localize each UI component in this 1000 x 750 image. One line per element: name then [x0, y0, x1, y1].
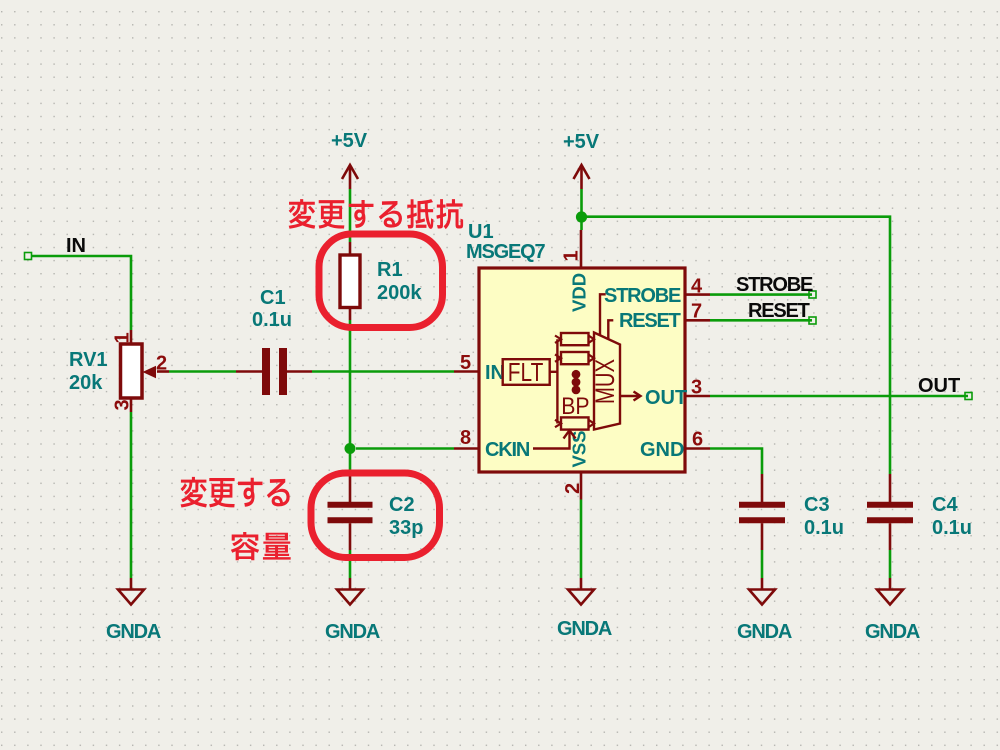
wire IN to RV1 pin 1 — [31, 256, 131, 330]
svg-text:0.1u: 0.1u — [804, 517, 844, 539]
U1 pin 4 STROBE stub — [685, 293, 710, 296]
U1 pin 5 IN stub — [454, 370, 479, 373]
svg-text:4: 4 — [691, 276, 703, 298]
svg-text:0.1u: 0.1u — [252, 309, 292, 331]
svg-text:8: 8 — [460, 427, 471, 449]
capacitor C4 — [867, 474, 913, 550]
svg-text:GNDA: GNDA — [865, 621, 920, 643]
wire +5V to R1 — [349, 189, 352, 242]
svg-text:+5V: +5V — [563, 131, 600, 153]
U1 pin 2 VSS stub — [580, 472, 583, 500]
svg-text:2: 2 — [562, 483, 584, 494]
svg-text:6: 6 — [692, 429, 703, 451]
annotation text 変更する抵抗 — [289, 199, 316, 229]
unconnected end square (OUT) — [965, 393, 972, 400]
svg-text:STROBE: STROBE — [604, 285, 681, 307]
svg-text:200k: 200k — [377, 282, 422, 304]
U1 pin 1 VDD stub — [580, 230, 583, 268]
U1 pin 8 CKIN stub — [454, 447, 479, 450]
annotation circle (R1) — [319, 234, 443, 328]
svg-text:33p: 33p — [389, 517, 423, 539]
U1 internal FLT to bus line — [550, 371, 558, 373]
capacitor C3 — [739, 474, 785, 550]
U1 internal filter box 3 BP — [561, 417, 589, 429]
U1 pin 6 GND stub — [685, 447, 710, 450]
svg-text:C1: C1 — [260, 287, 286, 309]
svg-text:OUT: OUT — [645, 387, 687, 409]
wire +5V rail to C4 — [580, 189, 583, 230]
svg-text:OUT: OUT — [918, 375, 960, 397]
junction at CKIN node — [345, 443, 356, 454]
svg-text:3: 3 — [691, 377, 702, 399]
ground GNDA (C3) — [749, 578, 775, 605]
svg-text:+5V: +5V — [331, 130, 368, 152]
svg-text:IN: IN — [66, 235, 86, 257]
wire RV1 pin 3 to ground — [130, 412, 133, 578]
svg-text:MUX: MUX — [590, 359, 620, 404]
svg-text:20k: 20k — [69, 372, 103, 394]
unconnected end square (IN) — [25, 253, 32, 260]
svg-text:2: 2 — [156, 353, 167, 375]
svg-text:MSGEQ7: MSGEQ7 — [466, 241, 545, 263]
capacitor C1 — [236, 348, 312, 395]
wire junction to U1 pin 8 — [356, 447, 454, 450]
wire U1 pin 3 OUT — [710, 395, 968, 398]
unconnected end square (RESET) — [809, 317, 816, 324]
annotation text 容量 — [231, 532, 259, 560]
svg-text:R1: R1 — [377, 259, 403, 281]
svg-text:GNDA: GNDA — [325, 621, 380, 643]
power symbol +5V (U1) — [574, 165, 590, 189]
svg-text:C3: C3 — [804, 494, 830, 516]
U1 internal MUX trapezoid — [594, 333, 620, 430]
ground GNDA (C4) — [877, 578, 903, 605]
IC U1 MSGEQ7 body — [479, 268, 685, 472]
wire C4 to ground — [889, 550, 892, 578]
svg-text:U1: U1 — [468, 221, 494, 243]
svg-text:0.1u: 0.1u — [932, 517, 972, 539]
wire U1 pin 7 RESET — [710, 319, 812, 322]
unconnected end square (STROBE) — [809, 291, 816, 298]
U1 internal mux arrows — [589, 336, 595, 428]
ground GNDA (U1) — [568, 578, 594, 605]
U1 internal dots — [572, 370, 581, 394]
wire U1 pin 6 GND to C3 — [710, 449, 762, 475]
U1 internal filter box 1 — [561, 333, 589, 345]
potentiometer RV1 body — [121, 330, 170, 412]
U1 internal filter bus — [556, 339, 558, 423]
U1 internal input arrows — [555, 336, 561, 428]
power symbol +5V (R1) — [342, 165, 358, 189]
svg-text:5: 5 — [460, 352, 471, 374]
ground GNDA (RV1) — [118, 578, 144, 605]
svg-text:GNDA: GNDA — [106, 621, 161, 643]
wire U1 pin 2 to ground — [580, 500, 583, 579]
svg-text:1: 1 — [112, 332, 134, 343]
junction at VDD node — [576, 211, 587, 222]
ground GNDA (C2) — [337, 578, 363, 605]
U1 internal STROBE hook — [600, 294, 606, 335]
svg-text:VSS: VSS — [569, 430, 590, 467]
svg-text:C4: C4 — [932, 494, 958, 516]
wire C3 to ground — [761, 550, 764, 578]
svg-text:RESET: RESET — [619, 310, 681, 332]
svg-text:GND: GND — [640, 439, 684, 461]
resistor R1 — [340, 242, 360, 320]
annotation circle (C2) — [311, 473, 440, 558]
svg-text:CKIN: CKIN — [485, 439, 530, 461]
wire R1 to junction and C2 — [349, 320, 352, 472]
U1 pin 7 RESET stub — [685, 319, 710, 322]
U1 internal RESET hook — [608, 320, 613, 339]
svg-text:GNDA: GNDA — [737, 621, 792, 643]
U1 internal FLT box — [503, 359, 550, 385]
wire +5V rail horizontal — [582, 217, 891, 474]
wire C1 to U1 pin 5 — [312, 370, 454, 373]
svg-text:C2: C2 — [389, 494, 415, 516]
svg-text:3: 3 — [112, 399, 134, 410]
capacitor C2 — [328, 472, 373, 550]
svg-text:RESET: RESET — [748, 300, 810, 322]
U1 internal OUT arrow — [620, 392, 641, 401]
wire U1 pin 4 STROBE — [710, 293, 812, 296]
wire C2 to ground — [349, 550, 352, 578]
svg-text:STROBE: STROBE — [736, 274, 813, 296]
svg-text:7: 7 — [691, 301, 702, 323]
wire RV1 wiper to C1 — [169, 370, 236, 373]
svg-text:BP: BP — [561, 393, 589, 420]
U1 internal CKIN hook — [533, 430, 576, 448]
svg-text:FLT: FLT — [508, 357, 544, 387]
svg-text:GNDA: GNDA — [557, 618, 612, 640]
svg-text:1: 1 — [561, 250, 583, 261]
U1 internal filter box 2 — [561, 352, 589, 364]
svg-text:VDD: VDD — [569, 273, 590, 312]
annotation text 変更する — [181, 477, 207, 508]
svg-text:RV1: RV1 — [69, 349, 108, 371]
U1 pin 3 OUT stub — [685, 395, 710, 398]
